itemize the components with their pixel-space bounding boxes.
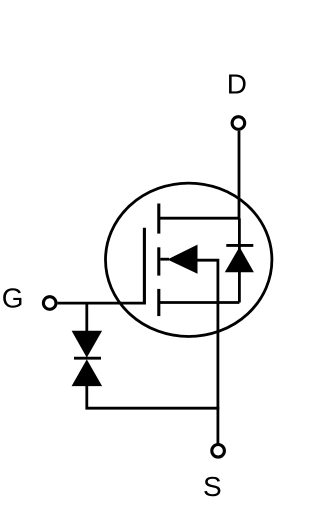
wire body diode lead bbox=[238, 218, 241, 302]
channel segment drain bbox=[157, 204, 160, 234]
wire body arrow stub bbox=[160, 258, 169, 261]
channel segment source bbox=[157, 289, 160, 316]
body diode D2 bbox=[225, 247, 254, 272]
wire drain horizontal bbox=[159, 217, 240, 220]
body diode cathode bar bbox=[226, 244, 253, 247]
terminal D bbox=[232, 117, 245, 130]
svg-text:G: G bbox=[2, 283, 24, 314]
wire source (body tie to S) bbox=[196, 260, 218, 408]
wire source horizontal bbox=[159, 301, 240, 304]
substrate arrow bbox=[167, 245, 197, 274]
wire gate horizontal bbox=[58, 302, 146, 305]
wire TVS top lead bbox=[85, 303, 88, 332]
terminal S bbox=[212, 445, 225, 458]
terminal G bbox=[43, 297, 56, 310]
gate line bbox=[143, 228, 146, 303]
channel segment body bbox=[157, 247, 160, 275]
svg-text:S: S bbox=[203, 471, 222, 502]
zener diode Z1 top (cathode up) bbox=[72, 331, 103, 358]
svg-text:D: D bbox=[227, 68, 247, 99]
zener bar bbox=[74, 357, 101, 360]
wire drain vertical bbox=[238, 131, 241, 218]
wire S terminal lead bbox=[216, 408, 219, 443]
zener diode Z1 bottom (cathode down) bbox=[72, 359, 103, 386]
wire TVS bottom lead and bottom horizontal bbox=[87, 385, 220, 408]
transistor Q1 outline circle bbox=[106, 183, 272, 336]
